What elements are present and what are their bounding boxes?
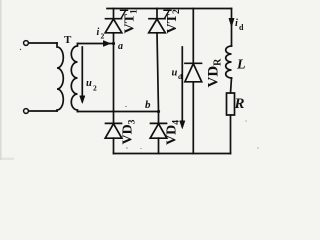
inductor L <box>226 46 232 78</box>
wire left leg upper <box>113 9 115 19</box>
thyristor VT1 <box>106 18 122 20</box>
wire VDR branch upper <box>192 9 194 64</box>
svg-text:i: i <box>97 27 100 38</box>
wire R to bottom rail <box>230 115 232 154</box>
arrowhead i2 <box>104 41 111 47</box>
wire secondary bottom to node b <box>78 111 159 113</box>
svg-text:b: b <box>145 99 151 111</box>
scan speckles <box>20 49 259 149</box>
terminal top-left <box>24 41 29 46</box>
svg-text:2: 2 <box>93 84 97 93</box>
node b junction <box>157 110 160 113</box>
wire top rail <box>107 8 232 10</box>
diode VD4 <box>151 122 167 124</box>
wire right leg upper <box>156 9 158 19</box>
wire L to R <box>231 78 232 93</box>
svg-text:d: d <box>239 23 244 32</box>
svg-text:VDR: VDR <box>206 58 224 88</box>
transformer T primary winding <box>57 43 63 111</box>
resistor R box <box>227 93 235 115</box>
svg-text:a: a <box>118 41 123 52</box>
label VDR rotated <box>206 58 224 88</box>
label VT2 rotated <box>165 9 182 33</box>
label VT1 rotated <box>123 9 140 33</box>
arrowhead id <box>229 19 234 28</box>
svg-text:T: T <box>64 34 72 46</box>
wire load branch top with corner <box>231 9 233 47</box>
thyristor VT2 <box>149 18 165 20</box>
wire node a leg <box>113 33 115 124</box>
wire left leg lower <box>113 138 115 153</box>
wire node b leg <box>157 33 159 124</box>
svg-text:L: L <box>236 58 246 73</box>
svg-text:R: R <box>234 96 245 112</box>
svg-text:u: u <box>86 78 92 89</box>
svg-text:VD3: VD3 <box>121 119 138 144</box>
label VD4 rotated <box>165 120 182 145</box>
svg-text:2: 2 <box>101 32 105 41</box>
diode VD3 <box>106 122 122 124</box>
wire secondary top to node a <box>78 43 114 45</box>
terminal bottom-left <box>24 109 29 114</box>
label VD3 rotated <box>121 119 138 144</box>
wire primary bottom <box>29 110 57 112</box>
u2 arrow <box>81 47 83 101</box>
svg-text:i: i <box>235 18 238 29</box>
scan edge shading <box>0 0 2 160</box>
wire bottom rail <box>114 153 231 155</box>
transformer T secondary winding <box>71 44 77 112</box>
svg-text:u: u <box>172 68 178 79</box>
node a junction <box>112 42 115 45</box>
wire VDR branch lower <box>192 82 194 154</box>
diode VDR <box>185 62 202 64</box>
wire primary top <box>29 42 57 44</box>
ud arrow <box>181 47 183 126</box>
wire right leg lower <box>158 138 160 153</box>
